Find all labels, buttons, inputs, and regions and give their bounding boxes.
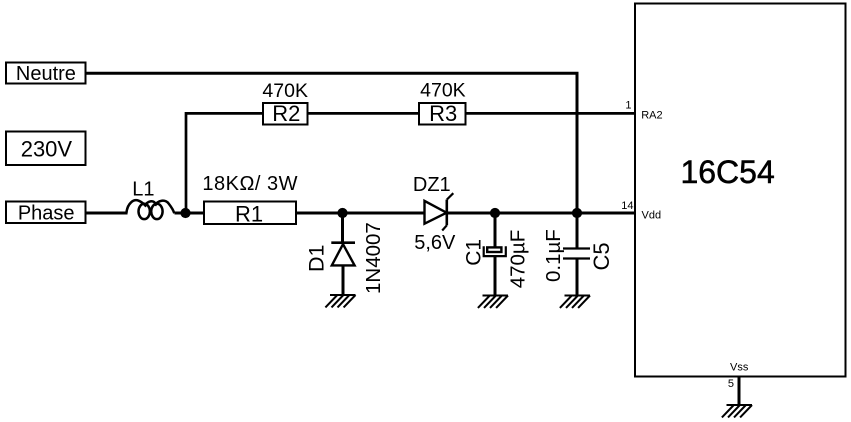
svg-text:R2: R2: [272, 101, 300, 126]
svg-text:470K: 470K: [262, 80, 308, 102]
svg-text:14: 14: [621, 200, 633, 212]
svg-text:Vdd: Vdd: [642, 210, 662, 222]
svg-text:R3: R3: [429, 101, 457, 126]
svg-text:R1: R1: [235, 202, 263, 227]
svg-text:5: 5: [728, 378, 734, 390]
svg-text:470K: 470K: [420, 80, 466, 102]
svg-text:0.1µF: 0.1µF: [542, 229, 565, 282]
svg-text:5,6V: 5,6V: [414, 232, 456, 254]
svg-text:D1: D1: [304, 245, 328, 272]
svg-text:16C54: 16C54: [680, 154, 774, 190]
svg-text:RA2: RA2: [641, 110, 662, 122]
svg-text:C1: C1: [463, 239, 486, 266]
svg-text:DZ1: DZ1: [413, 174, 451, 196]
svg-text:C5: C5: [589, 242, 614, 270]
svg-text:1: 1: [625, 100, 631, 112]
svg-text:470µF: 470µF: [507, 230, 530, 289]
svg-text:230V: 230V: [21, 137, 73, 162]
svg-text:L1: L1: [132, 179, 154, 201]
svg-text:Neutre: Neutre: [16, 63, 76, 85]
svg-text:18KΩ/ 3W: 18KΩ/ 3W: [202, 173, 298, 195]
svg-text:1N4007: 1N4007: [362, 222, 385, 294]
svg-text:Vss: Vss: [730, 362, 749, 374]
svg-text:Phase: Phase: [18, 202, 75, 224]
